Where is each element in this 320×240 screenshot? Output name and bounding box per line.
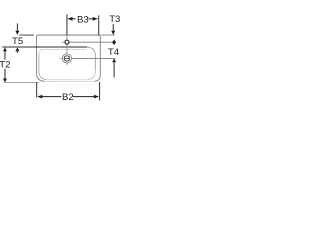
dimension T5 top arrow xyxy=(15,31,19,35)
tap hole centerline extension right (T3/T4 reference) xyxy=(69,41,114,43)
dimension B2 left arrow xyxy=(37,95,42,99)
svg-text:T4: T4 xyxy=(108,47,120,58)
inner bowl bottom-right corner xyxy=(88,70,96,79)
dimension T3 top arrow xyxy=(111,31,115,35)
dimension B3 right arrow xyxy=(93,17,98,21)
drain centerline extension right (T4 reference) xyxy=(72,57,116,59)
dimension T2 top arrow xyxy=(3,48,7,52)
drain inner circle xyxy=(64,56,69,61)
dimension T5 bottom arrow xyxy=(15,48,19,52)
dimension B3 left extension (tap centerline up) xyxy=(66,14,68,35)
dimension T5 reference line (top edge extension left) xyxy=(19,34,34,36)
dimension T3 leader xyxy=(112,24,114,31)
inner bowl secondary rim line xyxy=(39,49,86,54)
svg-text:B3: B3 xyxy=(77,14,89,25)
inner bowl left side xyxy=(39,54,47,79)
dimension T4 leader down xyxy=(113,62,115,77)
dimension T2 bottom reference line (front edge extension left) xyxy=(4,82,39,84)
dimension B3 right extension xyxy=(98,15,100,35)
svg-text:B2: B2 xyxy=(62,92,74,103)
dimension B2 right arrow xyxy=(94,95,99,99)
svg-text:T5: T5 xyxy=(12,36,23,47)
basin outer outline xyxy=(37,35,101,81)
dimension B2 line right xyxy=(73,96,94,98)
dimension T4 bottom arrow xyxy=(112,59,116,63)
dimension B3 right stub xyxy=(88,18,92,20)
drain vertical centerline bottom stub xyxy=(66,63,68,65)
inner bowl bottom edge xyxy=(46,78,88,80)
dimension T5 bottom stub xyxy=(16,51,18,53)
dimension B2 left extension xyxy=(36,82,38,97)
dimension B2 right extension xyxy=(99,82,101,100)
dimension T2 leader upper xyxy=(4,51,6,60)
dimension B3 left stub xyxy=(72,18,75,20)
tap hole horizontal centerline left stub xyxy=(62,41,65,43)
centerline tap to drain xyxy=(66,44,68,53)
dimension B2 line left xyxy=(42,96,61,98)
tap hole xyxy=(65,40,69,44)
tap hole vertical centerline (below top edge) xyxy=(66,35,68,39)
drain outer circle xyxy=(62,54,71,63)
dimension T3 bottom / T4 top arrows (diamond) xyxy=(112,40,116,45)
drain horizontal centerline left stub xyxy=(60,57,62,59)
dimension B3 left arrow xyxy=(67,17,72,21)
dimension T2 leader lower xyxy=(4,69,6,79)
drain center dash xyxy=(64,57,70,59)
top edge extension right (T3 reference) xyxy=(100,34,115,36)
dimension T2 bottom arrow xyxy=(3,79,7,83)
svg-text:T3: T3 xyxy=(109,14,120,25)
dimension T5 leader top xyxy=(16,23,18,31)
basin front (bottom) edge xyxy=(44,80,95,82)
inner bowl right side xyxy=(87,47,95,70)
inner bowl rim top edge + T5/T2 reference line xyxy=(2,46,87,48)
